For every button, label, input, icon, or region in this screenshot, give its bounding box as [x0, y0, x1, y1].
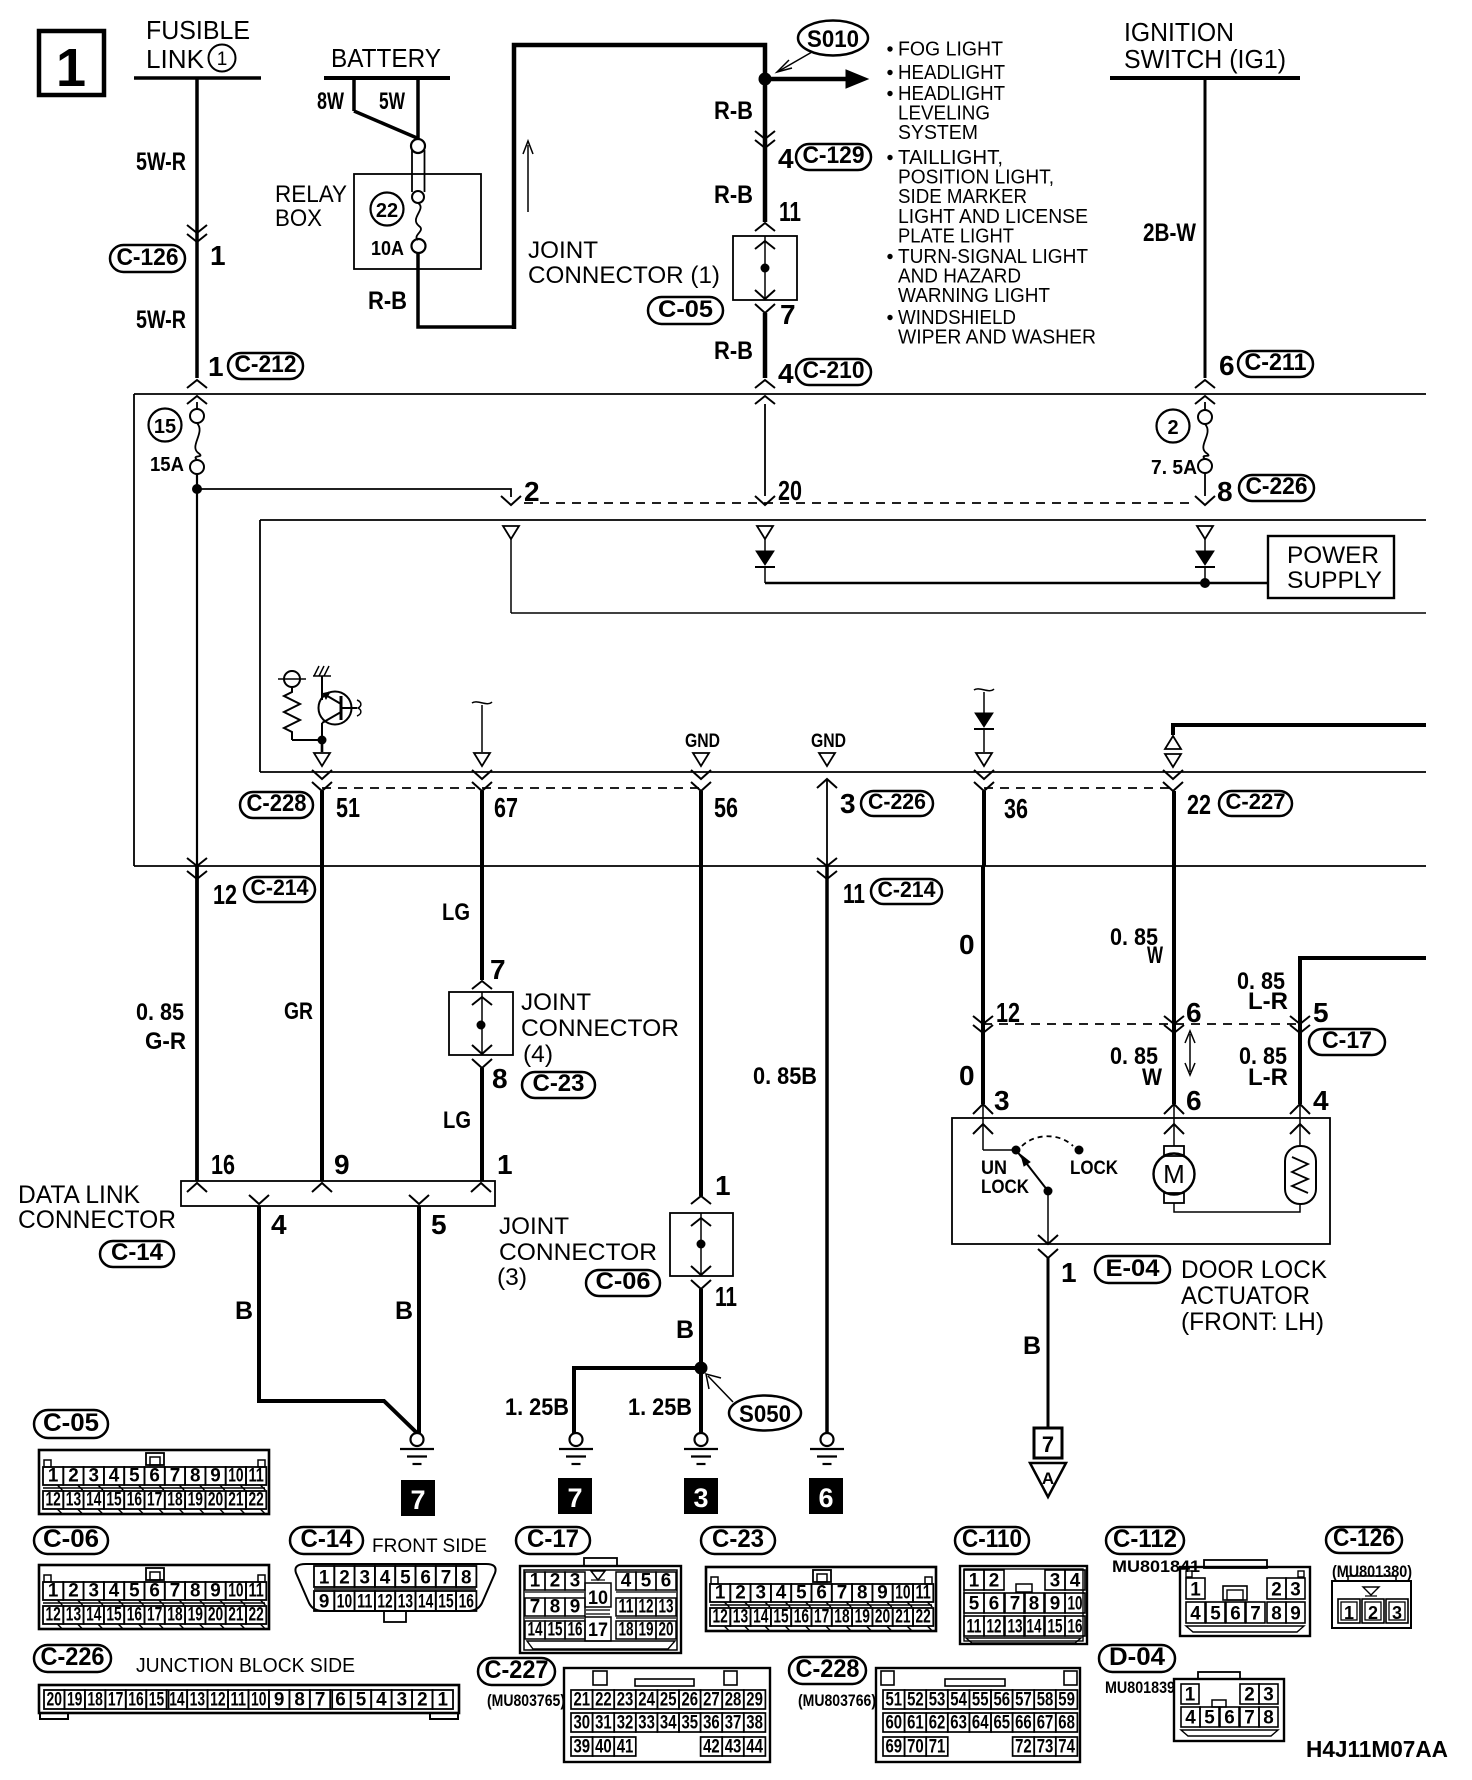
ground ref 6 black [809, 1478, 843, 1514]
svg-text:13: 13 [1008, 1617, 1023, 1638]
connector pinout C-228 [789, 1657, 866, 1684]
svg-text:23: 23 [617, 1690, 634, 1711]
svg-text:55: 55 [972, 1690, 989, 1711]
svg-text:12: 12 [46, 1490, 61, 1511]
svg-text:9: 9 [319, 1592, 330, 1613]
svg-text:7: 7 [1010, 1594, 1021, 1615]
wire x765 inside block [764, 404, 766, 496]
svg-text:21: 21 [574, 1690, 591, 1711]
svg-text:0. 85B: 0. 85B [753, 1063, 817, 1090]
svg-text:JOINT: JOINT [499, 1213, 569, 1240]
wire GR x322 [320, 791, 324, 1181]
svg-text:17: 17 [814, 1607, 829, 1628]
ground ref 7 black [401, 1480, 435, 1516]
svg-text:2B-W: 2B-W [1143, 219, 1196, 247]
svg-text:POWER: POWER [1287, 542, 1379, 569]
svg-text:14: 14 [1027, 1617, 1042, 1638]
svg-text:C-228: C-228 [247, 790, 307, 817]
control unit box [260, 519, 1426, 521]
svg-text:2: 2 [68, 1581, 79, 1602]
svg-text:17: 17 [147, 1605, 162, 1626]
svg-text:3: 3 [1290, 1580, 1301, 1601]
svg-text:0. 85: 0. 85 [136, 999, 184, 1026]
svg-text:10: 10 [1068, 1594, 1083, 1615]
svg-text:59: 59 [1058, 1690, 1075, 1711]
svg-text:8: 8 [492, 1063, 508, 1094]
svg-text:C-126: C-126 [117, 244, 179, 271]
svg-text:14: 14 [86, 1605, 102, 1626]
svg-text:11: 11 [231, 1690, 247, 1711]
svg-text:8: 8 [550, 1597, 561, 1618]
branch 1.25B wire [574, 1368, 701, 1433]
dashed connector line C-227 [984, 787, 1173, 789]
svg-text:8: 8 [1271, 1604, 1282, 1625]
svg-text:7: 7 [441, 1568, 452, 1589]
svg-text:4: 4 [109, 1466, 120, 1487]
svg-text:28: 28 [725, 1690, 742, 1711]
junction block box [134, 393, 1426, 395]
wire B x701 [699, 791, 703, 1196]
pin 3 arrow up [817, 779, 837, 788]
svg-text:35: 35 [682, 1713, 699, 1734]
svg-text:14: 14 [418, 1592, 434, 1613]
updown arrow [1189, 1034, 1191, 1072]
svg-text:2: 2 [1167, 417, 1178, 439]
connector pinout C-227 [478, 1658, 555, 1685]
svg-text:3: 3 [840, 788, 856, 819]
arrow feed to other circuits [765, 77, 846, 82]
svg-text:61: 61 [907, 1713, 924, 1734]
svg-text:19: 19 [639, 1620, 654, 1641]
svg-text:6: 6 [1186, 997, 1202, 1028]
svg-text:C-227: C-227 [1226, 789, 1286, 814]
svg-text:1: 1 [715, 1583, 726, 1604]
svg-text:5: 5 [969, 1594, 980, 1615]
wire B to S050 [699, 1289, 703, 1368]
svg-text:7: 7 [170, 1466, 181, 1487]
svg-text:L-R: L-R [1248, 988, 1288, 1015]
svg-text:L-R: L-R [1248, 1064, 1288, 1091]
svg-text:1: 1 [715, 1170, 731, 1201]
svg-text:W: W [1142, 1064, 1162, 1091]
ground ref 7 black second [558, 1478, 592, 1514]
svg-text:4: 4 [778, 143, 794, 174]
svg-text:60: 60 [886, 1713, 903, 1734]
svg-text:13: 13 [659, 1597, 674, 1618]
splice label S010 [798, 21, 868, 56]
svg-text:5: 5 [1210, 1604, 1221, 1625]
svg-text:11: 11 [779, 196, 801, 227]
splice label S050 [729, 1396, 801, 1431]
svg-text:4: 4 [776, 1583, 787, 1604]
pin 3 into actuator [973, 1104, 993, 1114]
svg-text:3: 3 [1392, 1603, 1402, 1623]
svg-text:9: 9 [210, 1466, 221, 1487]
svg-text:27: 27 [703, 1690, 720, 1711]
svg-text:11: 11 [843, 878, 865, 909]
svg-text:3: 3 [570, 1571, 581, 1592]
joint connector (3) box [670, 1213, 733, 1276]
wire R-B from relay box [418, 253, 514, 327]
svg-text:16: 16 [128, 1690, 143, 1711]
svg-text:12: 12 [210, 1690, 225, 1711]
svg-text:3: 3 [89, 1581, 100, 1602]
svg-text:24: 24 [638, 1690, 655, 1711]
fuse 15 [196, 402, 198, 410]
svg-text:E-04: E-04 [1106, 1255, 1161, 1282]
svg-text:7: 7 [1250, 1604, 1261, 1625]
junction dot fuse15 branch [192, 484, 202, 494]
svg-text:C-129: C-129 [803, 142, 865, 169]
svg-text:12: 12 [46, 1605, 61, 1626]
svg-text:10: 10 [228, 1466, 243, 1487]
svg-text:16: 16 [127, 1490, 142, 1511]
svg-text:GR: GR [284, 998, 313, 1025]
up arrow trunk marker [527, 145, 529, 212]
svg-text:2: 2 [735, 1583, 746, 1604]
svg-text:C-17: C-17 [1322, 1027, 1372, 1054]
svg-text:5: 5 [356, 1690, 367, 1711]
svg-text:22: 22 [595, 1690, 612, 1711]
svg-text:11: 11 [967, 1617, 982, 1638]
svg-text:18: 18 [87, 1690, 102, 1711]
svg-text:2: 2 [68, 1466, 79, 1487]
svg-text:22: 22 [376, 200, 398, 222]
connector pinout C-05 [34, 1410, 108, 1438]
svg-text:CONNECTOR: CONNECTOR [521, 1015, 679, 1042]
svg-text:44: 44 [746, 1737, 763, 1758]
svg-text:66: 66 [1015, 1713, 1032, 1734]
dashed connector line C-17 [983, 1023, 1300, 1025]
svg-text:8: 8 [1217, 476, 1233, 507]
svg-text:C-226: C-226 [41, 1643, 105, 1671]
svg-text:1. 25B: 1. 25B [505, 1394, 569, 1421]
svg-text:C-23: C-23 [712, 1525, 764, 1553]
wire 0 x983 [982, 791, 986, 866]
wire 0.85 G-R x197 [195, 866, 199, 1181]
svg-text:5: 5 [400, 1568, 411, 1589]
svg-text:JUNCTION BLOCK SIDE: JUNCTION BLOCK SIDE [136, 1655, 355, 1677]
svg-text:9: 9 [274, 1690, 285, 1711]
svg-text:11: 11 [249, 1581, 265, 1602]
power supply box [1268, 536, 1394, 598]
svg-text:13: 13 [733, 1607, 748, 1628]
svg-text:15: 15 [548, 1620, 563, 1641]
indicator circle with stubs [278, 678, 306, 680]
svg-text:10: 10 [588, 1588, 608, 1609]
svg-text:15: 15 [106, 1605, 122, 1626]
svg-text:12: 12 [213, 879, 237, 910]
svg-text:3: 3 [994, 1085, 1010, 1116]
svg-text:10: 10 [895, 1583, 910, 1604]
svg-text:R-B: R-B [714, 181, 753, 209]
svg-text:6: 6 [1219, 350, 1235, 381]
svg-text:4: 4 [109, 1581, 120, 1602]
wire 1.25B down [699, 1368, 703, 1433]
svg-text:1: 1 [530, 1571, 541, 1592]
svg-text:2: 2 [989, 1571, 1000, 1592]
svg-text:PLATE LIGHT: PLATE LIGHT [898, 225, 1014, 247]
svg-text:12: 12 [377, 1592, 392, 1613]
diode x1205 [1196, 551, 1214, 565]
svg-text:20: 20 [875, 1607, 890, 1628]
svg-text:7: 7 [837, 1583, 848, 1604]
svg-text:74: 74 [1058, 1737, 1075, 1758]
svg-text:7: 7 [170, 1581, 181, 1602]
svg-text:W: W [1147, 942, 1163, 969]
power input connector x1205 [1197, 526, 1213, 539]
svg-text:1: 1 [1185, 1685, 1196, 1706]
svg-text:G-R: G-R [145, 1028, 186, 1055]
svg-text:C-214: C-214 [878, 877, 937, 902]
svg-text:58: 58 [1037, 1690, 1054, 1711]
svg-text:C-126: C-126 [1333, 1524, 1395, 1552]
svg-text:C-214: C-214 [251, 875, 310, 900]
svg-text:1: 1 [969, 1571, 980, 1592]
svg-text:20: 20 [47, 1690, 62, 1711]
svg-text:8: 8 [294, 1690, 305, 1711]
svg-text:0: 0 [959, 929, 975, 960]
svg-text:26: 26 [682, 1690, 699, 1711]
connector label C-05 [648, 297, 723, 324]
svg-text:C-212: C-212 [235, 351, 297, 378]
pin 22 [1163, 770, 1183, 779]
svg-text:2: 2 [1244, 1685, 1255, 1706]
svg-text:14: 14 [528, 1620, 543, 1641]
svg-text:4: 4 [376, 1690, 387, 1711]
joint connector (1) box [755, 223, 775, 231]
wire x1205 inside block [1204, 402, 1206, 410]
svg-text:15: 15 [773, 1607, 789, 1628]
svg-text:2: 2 [1271, 1580, 1282, 1601]
svg-text:C-210: C-210 [803, 357, 865, 384]
wire 0.85B x827 [825, 866, 829, 1433]
relay box [354, 174, 481, 269]
svg-text:43: 43 [725, 1737, 742, 1758]
dashed connector line C-228 [322, 787, 701, 789]
svg-text:SWITCH (IG1): SWITCH (IG1) [1124, 44, 1286, 74]
svg-text:1: 1 [217, 49, 228, 70]
svg-text:15: 15 [149, 1690, 165, 1711]
svg-text:C-227: C-227 [485, 1656, 549, 1684]
svg-text:1: 1 [438, 1690, 449, 1711]
svg-text:34: 34 [660, 1713, 677, 1734]
svg-text:1: 1 [1061, 1257, 1077, 1288]
svg-text:0: 0 [959, 1060, 975, 1091]
svg-text:5: 5 [1204, 1708, 1215, 1729]
svg-text:BATTERY: BATTERY [331, 43, 441, 73]
svg-text:5: 5 [641, 1571, 652, 1592]
wire R-B main x765 [763, 79, 768, 222]
svg-text:5W-R: 5W-R [136, 148, 186, 176]
svg-text:15: 15 [106, 1490, 122, 1511]
power input connector x765 [757, 526, 773, 539]
svg-text:2: 2 [1368, 1603, 1378, 1623]
svg-text:JOINT: JOINT [528, 237, 598, 264]
svg-text:67: 67 [494, 792, 518, 823]
svg-text:LOCK: LOCK [1070, 1158, 1118, 1179]
svg-text:4: 4 [1313, 1085, 1329, 1116]
svg-text:R-B: R-B [368, 287, 407, 315]
fuse 2 7.5A [1198, 410, 1212, 424]
connector pinout C-226 junction block side [34, 1645, 111, 1672]
svg-text:3: 3 [89, 1466, 100, 1487]
svg-text:3: 3 [397, 1690, 408, 1711]
internal ground hatch [321, 676, 323, 700]
svg-text:9: 9 [877, 1583, 888, 1604]
motor-resistor link [1174, 1203, 1300, 1212]
svg-text:JOINT: JOINT [521, 989, 591, 1016]
svg-text:C-05: C-05 [658, 296, 713, 323]
svg-text:4: 4 [778, 358, 794, 389]
svg-text:36: 36 [703, 1713, 720, 1734]
svg-text:D-04: D-04 [1109, 1643, 1165, 1671]
connector pinout C-112 [1106, 1527, 1184, 1554]
svg-text:SYSTEM: SYSTEM [898, 122, 978, 144]
svg-text:3: 3 [1050, 1571, 1061, 1592]
svg-text:C-17: C-17 [527, 1525, 579, 1553]
svg-text:LG: LG [443, 1107, 471, 1134]
svg-text:16: 16 [568, 1620, 583, 1641]
svg-text:7: 7 [490, 954, 506, 985]
svg-text:14: 14 [753, 1607, 769, 1628]
svg-text:72: 72 [1015, 1737, 1032, 1758]
svg-text:51: 51 [336, 792, 360, 823]
svg-text:CONNECTOR (1): CONNECTOR (1) [528, 262, 720, 289]
connector pinout C-110 [955, 1527, 1029, 1554]
dashed connector line C-226 top [524, 502, 1192, 504]
svg-text:7: 7 [530, 1597, 541, 1618]
svg-text:LINK: LINK [146, 44, 205, 74]
svg-text:30: 30 [574, 1713, 591, 1734]
svg-text:9: 9 [1050, 1594, 1061, 1615]
power supply bus [765, 582, 1268, 584]
svg-text:GND: GND [811, 731, 846, 752]
svg-text:7. 5A: 7. 5A [1151, 457, 1197, 479]
svg-text:14: 14 [169, 1690, 185, 1711]
crossing into junction block x765 [755, 380, 775, 388]
svg-text:21: 21 [895, 1607, 911, 1628]
wire LG x482 upper [480, 791, 484, 980]
svg-text:1: 1 [48, 1466, 59, 1487]
svg-text:BOX: BOX [275, 205, 322, 232]
internal thick wire to pin 22 [1173, 725, 1426, 735]
svg-text:1: 1 [208, 351, 224, 382]
wire 2B-W ignition [1204, 78, 1207, 378]
svg-text:10: 10 [337, 1592, 352, 1613]
fuse 22 label [371, 193, 404, 226]
svg-text:4: 4 [380, 1568, 391, 1589]
svg-text:SUPPLY: SUPPLY [1287, 567, 1382, 594]
svg-text:2: 2 [339, 1568, 350, 1589]
svg-text:C-226: C-226 [1246, 473, 1308, 500]
svg-text:H4J11M07AA: H4J11M07AA [1306, 1736, 1448, 1762]
svg-text:CONNECTOR: CONNECTOR [499, 1239, 657, 1266]
svg-text:19: 19 [855, 1607, 870, 1628]
svg-text:HEADLIGHT: HEADLIGHT [898, 62, 1005, 84]
svg-text:39: 39 [574, 1737, 591, 1758]
wire LG x482 lower [480, 1068, 484, 1181]
wire from fuse 15 down [196, 474, 198, 866]
svg-text:56: 56 [994, 1690, 1011, 1711]
svg-text:21: 21 [228, 1605, 244, 1626]
svg-text:5: 5 [1313, 997, 1329, 1028]
svg-text:A: A [1042, 1469, 1054, 1488]
splice S050 dot [695, 1362, 708, 1375]
svg-text:(MU803766): (MU803766) [798, 1691, 876, 1710]
connector pinout C-23 [701, 1527, 775, 1554]
svg-text:19: 19 [188, 1490, 203, 1511]
svg-text:1: 1 [1344, 1603, 1354, 1623]
svg-text:6: 6 [149, 1581, 160, 1602]
ground middle [695, 1433, 708, 1446]
svg-text:FOG LIGHT: FOG LIGHT [898, 39, 1003, 61]
svg-text:15: 15 [438, 1592, 454, 1613]
svg-text:22: 22 [249, 1605, 264, 1626]
wire 0.85 L-R x1300 [1300, 958, 1426, 1104]
svg-text:12: 12 [713, 1607, 728, 1628]
svg-text:14: 14 [86, 1490, 102, 1511]
svg-text:4: 4 [1190, 1604, 1201, 1625]
svg-text:68: 68 [1058, 1713, 1075, 1734]
svg-text:65: 65 [994, 1713, 1011, 1734]
S010 leader arrow [779, 52, 812, 71]
svg-text:20: 20 [778, 475, 802, 506]
svg-text:18: 18 [167, 1490, 182, 1511]
svg-text:16: 16 [794, 1607, 809, 1628]
svg-text:WARNING LIGHT: WARNING LIGHT [898, 285, 1050, 307]
svg-text:(MU803765): (MU803765) [487, 1691, 565, 1710]
svg-text:12: 12 [639, 1597, 654, 1618]
svg-text:(MU801380): (MU801380) [1332, 1562, 1412, 1581]
inter-system ref 7/A [1034, 1428, 1062, 1458]
wire B below actuator [1047, 1258, 1050, 1428]
joint connector (4) box [472, 981, 492, 989]
connector pinout C-06 [34, 1527, 108, 1554]
page number 1 box [39, 31, 104, 95]
svg-text:40: 40 [595, 1737, 612, 1758]
svg-text:11: 11 [619, 1597, 634, 1618]
svg-text:20: 20 [659, 1620, 674, 1641]
svg-text:13: 13 [66, 1490, 81, 1511]
svg-text:1: 1 [56, 38, 86, 98]
svg-text:R-B: R-B [714, 97, 753, 125]
lock switch [983, 1149, 1016, 1151]
svg-text:70: 70 [907, 1737, 924, 1758]
svg-text:R-B: R-B [714, 337, 753, 365]
svg-text:19: 19 [67, 1690, 82, 1711]
svg-text:57: 57 [1015, 1690, 1032, 1711]
svg-text:B: B [1023, 1332, 1041, 1360]
svg-text:FRONT SIDE: FRONT SIDE [372, 1536, 487, 1557]
connector pinout D-04 [1099, 1645, 1175, 1672]
svg-text:8: 8 [190, 1466, 201, 1487]
svg-text:38: 38 [746, 1713, 763, 1734]
ground DLC [411, 1433, 424, 1446]
pin 36 [974, 770, 994, 779]
svg-text:CONNECTOR: CONNECTOR [18, 1206, 176, 1234]
transistor Q internal [319, 692, 352, 725]
motor M [1164, 1104, 1184, 1114]
wire R-B lower [763, 313, 768, 378]
svg-text:15: 15 [1048, 1617, 1063, 1638]
svg-text:31: 31 [595, 1713, 612, 1734]
svg-text:13: 13 [66, 1605, 81, 1626]
connector pinout C-126 [1326, 1527, 1402, 1553]
svg-text:C-211: C-211 [1245, 349, 1307, 376]
svg-text:54: 54 [950, 1690, 967, 1711]
svg-text:19: 19 [188, 1605, 203, 1626]
